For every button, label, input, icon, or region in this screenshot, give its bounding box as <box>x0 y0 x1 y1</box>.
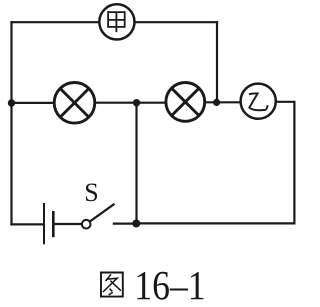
caption text 16-1 <box>134 264 205 307</box>
battery cell: short plate <box>52 211 55 237</box>
node: bottom junction <box>132 220 140 228</box>
node: middle junction <box>133 99 140 106</box>
wire: bottom rail node to switch <box>113 223 137 225</box>
svg-text:S: S <box>84 178 98 207</box>
wire: middle rail meter to right corner <box>276 101 295 103</box>
wire: top rail left segment <box>10 21 99 23</box>
wire: middle rail segment between lamps <box>95 102 166 104</box>
wire: middle rail segment lamp2 to meter <box>205 101 241 103</box>
node: left junction <box>8 99 15 106</box>
wire: center branch vertical <box>135 103 137 224</box>
meter 乙 (yǐ) <box>241 84 276 119</box>
wire: right branch vertical from top rail <box>216 21 218 102</box>
switch S lever <box>90 204 115 222</box>
lamp L2 <box>166 83 205 122</box>
meter 甲 (jiǎ) <box>99 4 134 39</box>
node: right junction <box>213 99 220 106</box>
wire: bottom rail left segment <box>10 223 43 225</box>
wire: battery to switch <box>54 223 82 225</box>
wire: left rail vertical <box>10 21 12 225</box>
battery cell: long plate <box>43 203 45 244</box>
switch S pivot <box>82 220 91 229</box>
wire: middle rail segment left <box>12 102 55 104</box>
svg-text:16–1: 16–1 <box>134 264 205 307</box>
caption 图 (figure) <box>101 273 123 297</box>
wire: bottom rail right segment <box>136 222 295 224</box>
wire: right rail vertical <box>293 101 295 224</box>
wire: top rail right segment <box>134 21 218 23</box>
lamp L1 <box>54 83 95 124</box>
